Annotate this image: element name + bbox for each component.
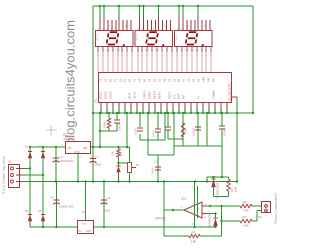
svg-text:E3: E3 [191, 78, 195, 82]
svg-text:VI: VI [68, 146, 71, 150]
svg-text:IC3: IC3 [181, 197, 186, 201]
svg-text:X2: X2 [258, 215, 262, 219]
svg-text:HD1105: HD1105 [97, 33, 99, 41]
svg-text:D1: D1 [127, 78, 131, 82]
svg-text:12345678: 12345678 [98, 50, 125, 52]
svg-text:INT: INT [181, 94, 185, 99]
svg-text:C3: C3 [167, 78, 171, 82]
svg-text:9-0-9 Center Tap Xmer: 9-0-9 Center Tap Xmer [2, 155, 6, 194]
svg-text:0.22uF: 0.22uF [192, 128, 196, 136]
svg-text:+: + [198, 206, 200, 210]
svg-text:OSC2: OSC2 [103, 91, 107, 99]
svg-text:+: + [200, 225, 202, 229]
svg-text:BP: BP [211, 78, 215, 82]
svg-text:1000uF/16V: 1000uF/16V [60, 159, 74, 163]
svg-text:VO: VO [83, 146, 88, 150]
svg-text:22K: 22K [111, 151, 115, 156]
svg-text:100uF: 100uF [103, 209, 111, 213]
svg-text:B1: B1 [108, 78, 112, 82]
svg-text:6.8K: 6.8K [234, 186, 238, 192]
svg-text:A3: A3 [172, 78, 176, 82]
svg-text:9 8 1 4 6: 9 8 1 4 6 [177, 28, 196, 30]
svg-text:9 8 1 4 6: 9 8 1 4 6 [138, 28, 157, 30]
svg-text:REF-L: REF-L [157, 91, 161, 99]
svg-text:R6: R6 [230, 188, 234, 192]
svg-text:HD1105: HD1105 [137, 33, 139, 41]
svg-text:0.47u: 0.47u [152, 130, 156, 137]
svg-text:100K: 100K [103, 122, 107, 128]
svg-text:0.1uF: 0.1uF [134, 128, 138, 135]
svg-text:C8: C8 [107, 196, 111, 200]
svg-text:X1: X1 [8, 160, 12, 164]
svg-text:IC4: IC4 [82, 210, 87, 214]
svg-text:Shunt Connected?: Shunt Connected? [274, 193, 278, 224]
svg-text:GND: GND [74, 150, 80, 154]
svg-text:V+: V+ [196, 95, 200, 99]
svg-text:R1: R1 [119, 152, 123, 156]
svg-text:C7: C7 [154, 159, 158, 163]
svg-text:D2: D2 [38, 145, 42, 149]
svg-text:D2: D2 [162, 78, 166, 82]
svg-text:D1: D1 [25, 145, 29, 149]
svg-text:BUF: BUF [176, 93, 180, 99]
svg-text:C1: C1 [98, 78, 102, 82]
svg-text:CREF+: CREF+ [142, 90, 146, 99]
svg-text:COMM: COMM [211, 90, 215, 99]
svg-text:HD1105: HD1105 [176, 33, 178, 41]
svg-text:ICL7107CPL: ICL7107CPL [228, 83, 232, 101]
svg-text:C2: C2 [132, 78, 136, 82]
svg-text:OSC3: OSC3 [108, 91, 112, 99]
svg-text:CREF-: CREF- [147, 91, 151, 99]
svg-text:7805TV: 7805TV [63, 137, 75, 141]
svg-text:A2: A2 [137, 78, 141, 82]
svg-text:OUT: OUT [86, 230, 92, 233]
svg-text:G3: G3 [186, 78, 190, 82]
svg-text:12345678: 12345678 [177, 50, 204, 52]
svg-text:TEST: TEST [167, 92, 171, 99]
svg-text:9 8 1 4 6: 9 8 1 4 6 [98, 28, 117, 30]
svg-text:E2: E2 [157, 78, 161, 82]
svg-text:IN-LO: IN-LO [132, 92, 136, 99]
svg-text:A1: A1 [103, 78, 107, 82]
svg-text:R3: R3 [243, 200, 247, 204]
svg-text:IN-HI: IN-HI [127, 92, 131, 99]
svg-text:IC1: IC1 [94, 98, 98, 103]
svg-text:B2: B2 [142, 78, 146, 82]
svg-text:0.1uF: 0.1uF [151, 167, 155, 174]
svg-text:6.8K: 6.8K [191, 240, 197, 244]
svg-text:−: − [198, 213, 200, 217]
svg-text:G1: G1 [118, 78, 122, 82]
svg-text:1N4148DO35-7: 1N4148DO35-7 [209, 210, 212, 228]
svg-text:D4: D4 [38, 209, 42, 213]
svg-text:1000uF 16V: 1000uF 16V [59, 205, 74, 209]
svg-text:AB4: AB4 [201, 77, 205, 82]
svg-text:C2 +: C2 + [95, 156, 101, 159]
svg-text:PM: PM [206, 78, 210, 82]
svg-text:IN: IN [79, 230, 82, 233]
svg-text:0.8K: 0.8K [243, 224, 249, 228]
svg-text:D3: D3 [196, 78, 200, 82]
svg-text:GND: GND [81, 224, 86, 226]
svg-text:C3: C3 [50, 196, 54, 200]
svg-text:100K: 100K [184, 128, 188, 134]
svg-text:D3: D3 [25, 209, 29, 213]
svg-text:OSC1: OSC1 [98, 91, 102, 99]
svg-text:100uF: 100uF [95, 164, 103, 167]
svg-text:E1: E1 [122, 78, 126, 82]
svg-text:blog.circuits4you.com: blog.circuits4you.com [63, 20, 78, 145]
svg-text:A-Z: A-Z [172, 94, 176, 99]
svg-text:REF-H: REF-H [152, 91, 156, 99]
svg-text:0.8K: 0.8K [243, 209, 249, 213]
svg-text:B3: B3 [176, 78, 180, 82]
svg-text:C1: C1 [60, 155, 64, 159]
svg-text:0.22uF: 0.22uF [223, 128, 227, 136]
svg-text:R7: R7 [243, 215, 247, 219]
svg-text:R2: R2 [192, 230, 196, 234]
svg-text:G2: G2 [152, 78, 156, 82]
svg-text:100nF: 100nF [118, 123, 122, 131]
